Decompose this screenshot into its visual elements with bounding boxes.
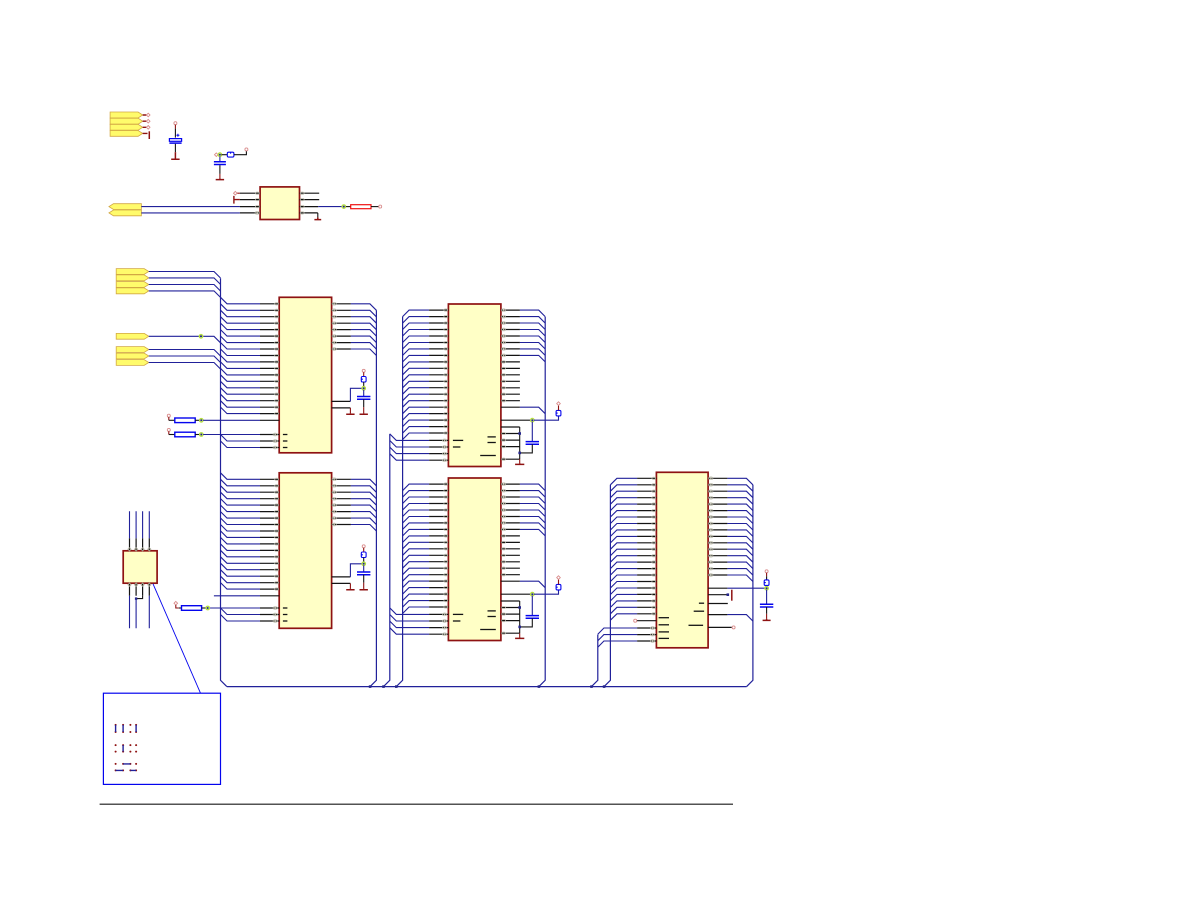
IC U6 xyxy=(656,472,708,648)
U6 right fan glyphs xyxy=(709,477,713,480)
U5 left pin glyphs xyxy=(444,483,448,485)
U6 right bus branch wires xyxy=(727,478,753,581)
U4 cap ground wire xyxy=(520,444,533,453)
U5 power wire to ferrite xyxy=(534,590,559,594)
resistor R5 xyxy=(179,607,182,609)
junction right of R2 xyxy=(200,419,204,423)
U3 power net wire xyxy=(350,564,362,577)
U6 right fan pins xyxy=(708,478,727,575)
junction on port S wire xyxy=(199,335,203,339)
U5 right stub pins xyxy=(501,536,520,575)
input port P2 xyxy=(109,204,141,210)
junction right of R5 xyxy=(206,606,210,610)
IC U3 xyxy=(279,473,331,629)
ground below U6 cap xyxy=(763,619,771,621)
wire P3 to U1 pin 4 xyxy=(141,212,240,214)
ferrite bead at U2 xyxy=(361,377,366,383)
U2 left bus branch wires xyxy=(221,297,261,413)
U1 ground wire xyxy=(317,213,319,218)
terminal above U6 ferrite xyxy=(765,570,768,573)
U4 left pin name dashes xyxy=(453,439,463,441)
U5 cap ground wire xyxy=(520,618,533,627)
decoupling capacitor at U3 xyxy=(363,565,365,572)
resistor R5 terminal xyxy=(174,601,178,605)
wire ferrite to junction U2 xyxy=(363,382,365,387)
U4 left control glyphs xyxy=(443,439,447,442)
U6 cap ground wire xyxy=(766,607,768,614)
junction U4 decoupling node xyxy=(531,418,535,422)
U5 low right glyphs xyxy=(502,606,506,608)
port group A (4 ports) xyxy=(116,269,149,275)
capacitor C1 bottom wire xyxy=(174,144,176,152)
U5 ground rail junctions xyxy=(518,606,521,609)
junction U5 decoupling node xyxy=(531,592,535,596)
U4 right stub glyphs xyxy=(502,361,506,363)
U7 top wires xyxy=(130,511,150,538)
U5 right bus branch wires xyxy=(520,484,545,536)
U6 NC pin right xyxy=(708,626,732,628)
U5 left pin name dashes xyxy=(453,613,463,615)
port S (single) xyxy=(116,333,149,339)
U2 ground wire xyxy=(349,408,351,413)
U6 left pins xyxy=(637,478,656,641)
U1 left pins xyxy=(240,193,260,213)
bottom bus xyxy=(227,686,747,688)
port J1 unconnected pin terminals xyxy=(146,113,150,117)
U7 bottom wires xyxy=(130,596,150,629)
column3 control bus trunk xyxy=(592,635,598,687)
resistor R2 terminal xyxy=(167,414,170,417)
U4 right stub pins xyxy=(501,362,520,401)
U6 power pin wire xyxy=(708,587,727,589)
ground below U4 xyxy=(519,459,521,463)
connector port group J1 (4 output ports) xyxy=(110,112,143,118)
node terminal left of L1 xyxy=(215,153,219,157)
column1 left bus trunk xyxy=(221,278,227,686)
terminal right of R1 xyxy=(379,205,382,208)
column2 right bus trunk xyxy=(539,317,545,687)
junction at R1 left xyxy=(342,205,346,209)
port group B (3 ports) xyxy=(116,347,149,353)
U2 right pin glyphs xyxy=(332,302,336,305)
U4 pin-18 wire xyxy=(501,419,531,421)
wire P2 to U1 pin 3 xyxy=(141,206,240,208)
capacitor C1 terminal xyxy=(174,122,177,125)
U1 pin 1 terminal xyxy=(234,191,238,195)
callout line from U7 to detail box xyxy=(153,584,200,693)
capacitor C1 top wire xyxy=(174,125,176,129)
U7 bottom pin glyphs xyxy=(128,583,131,586)
U6 ferrite wire xyxy=(766,573,768,577)
decoupling capacitor at U2 xyxy=(363,390,365,397)
wire port S to column1 bus xyxy=(149,336,221,343)
U6 NC pin left xyxy=(637,620,657,622)
U5 left control glyphs xyxy=(443,613,447,616)
input port P3 xyxy=(109,210,141,216)
U2 control pin glyphs xyxy=(273,433,277,436)
U4 right pin name dashes xyxy=(488,436,496,438)
junction at C2/L1 node xyxy=(218,153,222,157)
terminal above U2 ferrite xyxy=(362,369,365,372)
U2 right pins xyxy=(332,304,351,349)
U2 left pins xyxy=(260,304,279,448)
U3 power pins xyxy=(332,577,351,584)
U3 left bus branch wires xyxy=(221,473,261,589)
U4 low right glyphs xyxy=(502,432,506,434)
capacitor C1 (polarized) xyxy=(169,139,181,142)
U7 top pin glyphs xyxy=(128,548,131,551)
U2 power net wire xyxy=(350,388,362,401)
wire L1 to terminal xyxy=(234,151,247,155)
U3 ground wire xyxy=(349,583,351,588)
ground below U3 cap xyxy=(360,589,368,590)
U1 pin 1 terminal wire xyxy=(237,192,240,194)
bottom bus junctions xyxy=(369,685,372,688)
fuse L1 xyxy=(227,152,234,157)
ground below C2 xyxy=(216,178,224,179)
ferrite bead at U6 xyxy=(764,580,769,586)
ferrite bead at U4 xyxy=(556,410,561,416)
ferrite bead at U5 xyxy=(556,584,561,590)
wires port group A to column1 bus xyxy=(149,272,221,279)
U6 left bus branch wires xyxy=(610,478,637,620)
jumper legend row 2 pins xyxy=(115,744,117,746)
junction U6 decoupling node xyxy=(765,586,769,590)
U1 left pin number glyphs xyxy=(256,192,260,194)
decoupling capacitor at U5 xyxy=(531,596,533,616)
wire junction to fuse L1 xyxy=(222,154,228,156)
U4 right bus branch wires xyxy=(520,310,545,362)
IC U4 xyxy=(448,304,501,467)
U3 right pin glyphs xyxy=(332,478,336,481)
U5 right fan pins xyxy=(501,484,520,529)
U6 left control glyphs xyxy=(651,627,655,630)
decoupling cap ground wire U2 xyxy=(363,399,365,407)
column1 right bus trunk xyxy=(370,310,376,686)
U3 control wires xyxy=(210,608,260,621)
U2 ferrite wire xyxy=(363,372,365,376)
U1 right pins xyxy=(300,193,320,213)
U4 right fan glyphs xyxy=(502,309,506,312)
U4 ground rail xyxy=(519,427,521,459)
U6 left pin glyphs xyxy=(652,477,656,479)
U4 pin-16 wire xyxy=(501,406,520,408)
terminal above U3 ferrite xyxy=(362,545,365,548)
U6 left pin name dashes xyxy=(659,617,669,619)
detail box xyxy=(103,693,220,784)
IC U5 xyxy=(448,478,501,641)
IC U7 xyxy=(123,551,157,583)
terminal right of L1 xyxy=(245,148,248,151)
resistor R3 terminal xyxy=(167,428,170,431)
U5 low right pins xyxy=(501,601,520,633)
capacitor C2 top wire xyxy=(219,157,221,162)
power bar at U1 pin 2 xyxy=(234,196,240,204)
U3 ferrite wire xyxy=(363,548,365,552)
power bar at U6 vcc xyxy=(731,590,733,601)
U6 stub pin xyxy=(708,603,728,605)
U4 low right pins xyxy=(501,427,520,459)
ground below U1 xyxy=(314,217,321,219)
U4 power wire to ferrite xyxy=(534,416,559,420)
junction square at U7 xyxy=(135,597,137,599)
ground below C1 xyxy=(171,152,179,159)
U5 ground rail xyxy=(519,601,521,633)
jumper legend row 1 links xyxy=(116,725,137,732)
U4 left pins xyxy=(429,310,448,460)
U4 left bus branch wires xyxy=(403,310,430,439)
capacitor C2 xyxy=(214,162,226,165)
ground below U5 xyxy=(519,633,521,637)
decoupling capacitor at U4 xyxy=(531,422,533,442)
decoupling capacitor at U6 xyxy=(766,590,768,605)
U2 pin-19 wire xyxy=(203,419,260,421)
port J1 pin stubs xyxy=(143,115,148,133)
decoupling cap ground wire U3 xyxy=(363,575,365,583)
U6 vcc pin wire xyxy=(708,594,728,596)
resistor R1 xyxy=(346,206,351,208)
U3 left pin glyphs xyxy=(275,478,279,480)
sheet divider line xyxy=(100,803,733,805)
column3 left bus trunk xyxy=(604,485,610,687)
U5 pin-18 wire xyxy=(501,593,531,595)
U2 control wires xyxy=(203,435,260,448)
wires port group B to column1 bus xyxy=(149,350,221,357)
U4 left pin glyphs xyxy=(444,309,448,311)
jumper legend row 3 pins xyxy=(115,763,117,765)
resistor R2 xyxy=(169,419,175,421)
U3 right pins xyxy=(332,479,351,524)
IC U2 xyxy=(279,297,331,453)
wire U1 pin to R1 xyxy=(318,206,342,208)
U4 ground rail junctions xyxy=(518,432,521,435)
jumper legend row 2 links xyxy=(122,745,124,752)
junction at U2 decoupling node xyxy=(362,387,366,391)
junction square at U6 vcc xyxy=(727,593,730,596)
capacitor C1 polarity mark xyxy=(176,134,179,137)
junction at U3 decoupling node xyxy=(362,562,366,566)
U1 right pin number glyphs xyxy=(300,192,304,194)
U2 left pin glyphs xyxy=(275,303,279,305)
U5 right fan glyphs xyxy=(502,483,506,486)
column2 control bus trunk xyxy=(384,434,390,687)
U5 pin-16 wire xyxy=(501,580,520,582)
column3 right bus trunk xyxy=(747,485,753,687)
ground at U3 pin xyxy=(346,589,354,590)
U5 right stub glyphs xyxy=(502,535,506,537)
U7 bottom pins xyxy=(130,583,150,596)
U6 right pin name dashes xyxy=(699,602,704,604)
U4 left control wires xyxy=(390,434,429,460)
U3 control pin name dashes xyxy=(283,607,288,609)
terminal above U5 ferrite xyxy=(558,579,560,584)
U7 pin join wire xyxy=(136,596,143,599)
jumper legend row 3 links xyxy=(116,764,137,771)
U4 right fan pins xyxy=(501,310,520,355)
jumper legend row 1 pins xyxy=(115,724,117,726)
column2 left bus trunk xyxy=(396,317,402,687)
U2 right bus branch wires xyxy=(351,304,377,356)
ferrite bead at U3 xyxy=(361,552,366,558)
terminal above U4 ferrite xyxy=(558,405,560,410)
U3 pin-19 wire xyxy=(214,595,260,597)
U7 top pins xyxy=(130,538,150,551)
U5 right pin name dashes xyxy=(488,610,496,612)
junction right of R3 xyxy=(200,433,204,437)
ground at U2 pin xyxy=(346,413,354,414)
U6 left control wires xyxy=(598,628,637,647)
capacitor C2 bottom wire xyxy=(219,165,221,174)
U3 left pins xyxy=(260,479,279,621)
U5 left pins xyxy=(429,484,448,634)
U5 left control wires xyxy=(390,608,429,634)
ground below U2 cap xyxy=(360,413,368,414)
U5 left bus branch wires xyxy=(403,484,430,613)
IC U1 xyxy=(260,187,299,220)
U2 control pin name dashes xyxy=(283,434,288,436)
U3 control pin glyphs xyxy=(273,607,277,610)
wire ferrite to junction U3 xyxy=(363,558,365,563)
U3 right bus branch wires xyxy=(351,479,377,531)
power bar on port J1 pin 4 xyxy=(148,131,150,139)
resistor R3 xyxy=(169,434,175,436)
U2 power pins xyxy=(332,401,351,408)
U6 pin to right bus xyxy=(708,614,727,616)
